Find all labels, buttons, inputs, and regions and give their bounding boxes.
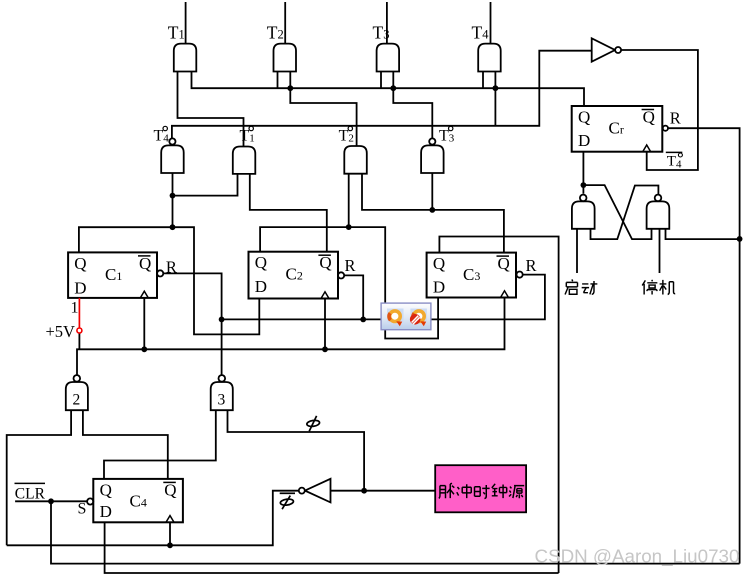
wire latch cross coupling right output to left gate input (591, 186, 659, 240)
junction C2 R on reset net (360, 317, 366, 323)
svg-text:T2: T2 (267, 23, 284, 43)
svg-text:C2: C2 (286, 264, 303, 283)
wire stop input leg (659, 229, 661, 273)
wire top inverter output to Cr clock (621, 50, 698, 170)
svg-text:Q: Q (255, 253, 267, 272)
junction T3 on bus (390, 85, 396, 91)
S bubble C4 (87, 498, 93, 504)
wire clock source to bottom inverter input (331, 490, 436, 492)
R bubble Cr (663, 126, 668, 131)
svg-text:C1: C1 (105, 265, 122, 284)
wire bus from T1 right leg to Cr Q pin (192, 72, 585, 107)
wire C2 clock down to clock line (324, 299, 326, 350)
wire T3 right leg through bus to T3-prime bubble (393, 72, 432, 139)
wire C3 Q up and over to right long rail down (439, 237, 558, 574)
wire gate3 left leg to C4 Q pin (104, 410, 216, 479)
AND gate T4 (478, 44, 501, 72)
svg-text:T4: T4 (472, 23, 490, 43)
svg-text:Q: Q (643, 108, 655, 127)
flip-flop Cr clock triangle (643, 145, 651, 152)
labels flip-flop C4 (78, 480, 177, 521)
wire T4 right leg through bus to T4-line (494, 72, 496, 126)
wire T4 line from T4-prime bubble to top inverter input (172, 51, 592, 139)
inverter gate T4-prime with input bubble (161, 145, 184, 173)
wire T2 right leg through bus to T2-prime gate top (290, 72, 356, 147)
labels flip-flop C3 (433, 254, 537, 297)
red wire from C1 D to +5V terminal (78, 298, 80, 328)
svg-text:R: R (166, 258, 177, 277)
junction T4-prime output on C1 Q line (170, 224, 176, 230)
wire bottom inverter output phibar to C4 clock and gate2 (7, 491, 299, 546)
svg-text:Q: Q (139, 254, 151, 273)
wire C1 Q up and over to C2 D (79, 227, 259, 334)
junction C2 clock on clock line (322, 346, 328, 352)
svg-text:T4: T4 (667, 154, 682, 171)
+5V terminal circle (77, 328, 82, 333)
wire T1-prime right leg to C2 Qbar pin (250, 174, 327, 252)
label CLR with overline (15, 483, 46, 502)
svg-text:C4: C4 (130, 492, 147, 511)
wire latch right gate right leg to right rail (666, 229, 740, 239)
wire CLR branch down and right to right rail (51, 501, 740, 563)
flip-flop Cr box (572, 106, 663, 152)
label T4-prime (154, 126, 170, 144)
junction T2-prime left leg on C2 Q line (346, 224, 352, 230)
wire T1 left leg to T1-prime gate top (178, 72, 244, 147)
flip-flop C3 box (427, 253, 516, 298)
NAND gate 3 (211, 382, 233, 410)
wire Cr D pin down to latch bubble (582, 152, 584, 194)
junction C4 clock on phibar line (167, 542, 173, 548)
svg-text:T1: T1 (168, 23, 185, 43)
wire C1 clock down to clock line (143, 298, 145, 349)
svg-text:Q: Q (100, 480, 112, 499)
wire T4-prime output down to C1 Q node (172, 173, 174, 227)
wire T4 left leg to bus (482, 72, 484, 89)
label T4bar-prime at Cr clock (666, 152, 683, 170)
junction T2 on bus (287, 85, 293, 91)
R bubble C2 (338, 272, 344, 278)
wire C2 R bubble to reset net (344, 275, 363, 319)
wire T3 input from top edge (386, 2, 388, 44)
wire clock line from +5V to C3 clock (77, 298, 505, 375)
flip-flop C3 clock triangle (501, 291, 509, 298)
svg-text:R: R (345, 256, 356, 275)
junction right rail with latch feedback (737, 236, 743, 242)
flip-flop C2 clock triangle (321, 292, 329, 299)
R bubble C3 (517, 272, 523, 278)
AND gate T2 (274, 44, 297, 72)
gate T1-prime (233, 147, 256, 174)
svg-text:Q: Q (164, 480, 176, 499)
wire T1 input from top edge (185, 2, 187, 44)
svg-text:Q: Q (74, 254, 86, 273)
icon artifact panel with two red swirl glyphs (381, 303, 431, 330)
NAND gate latch right (stop) (647, 201, 670, 228)
wire C2 Q up and over behind icon to C3 D (260, 227, 438, 338)
svg-text:D: D (433, 278, 445, 297)
junction Cr D with latch (581, 182, 587, 188)
label T3-prime (439, 126, 455, 144)
wire gate2 left leg to phibar line (7, 410, 71, 545)
svg-text:Q: Q (319, 253, 331, 272)
wire T2-prime right leg to C3 Qbar pin (362, 174, 504, 253)
wire Cr R bubble to right rail (668, 128, 740, 563)
flip-flop C4 clock triangle (166, 516, 174, 523)
wire gate3 right leg phi line to clock source line (228, 410, 365, 491)
svg-text:S: S (78, 500, 87, 517)
AND gate T1 (174, 44, 197, 72)
flip-flop C1 clock triangle (140, 291, 148, 298)
top inverter (makes T4 bar) (592, 38, 615, 61)
svg-text:C3: C3 (463, 265, 480, 284)
wire T3 left leg to bus (380, 72, 382, 89)
svg-text:R: R (670, 108, 681, 127)
svg-text:D: D (255, 277, 267, 296)
svg-text:1: 1 (71, 300, 79, 317)
junction T4 on bus (493, 85, 499, 91)
junction CLR branch (48, 498, 54, 504)
wire CLR label line to C4 S bubble (15, 500, 87, 502)
clock source text: mai chong shi zhong yuan (439, 483, 454, 498)
svg-text:Q: Q (433, 254, 445, 273)
NAND gate latch left (start) (572, 201, 595, 228)
svg-text:D: D (578, 131, 590, 150)
AND gate T3 (377, 44, 400, 72)
label T2-prime (339, 126, 354, 144)
label start (qi dong) (565, 279, 577, 294)
NAND gate 2 (66, 382, 88, 410)
wire T2-prime left leg to C2 Q node (348, 174, 350, 227)
svg-text:Q: Q (578, 108, 590, 127)
svg-text:Cr: Cr (609, 119, 624, 138)
wire T2 input from top edge (284, 2, 286, 44)
inverter gate T3-prime with input bubble (421, 145, 444, 173)
svg-text:CSDN @Aaron_Liu0730: CSDN @Aaron_Liu0730 (535, 546, 740, 568)
junction C1 clock on clock line (141, 346, 147, 352)
wire C4 clock down to phibar line (169, 522, 171, 545)
svg-text:R: R (526, 256, 537, 275)
svg-text:2: 2 (73, 392, 81, 409)
svg-text:D: D (74, 278, 86, 297)
junction C1 R reset net (219, 317, 225, 323)
svg-text:Q: Q (498, 254, 510, 273)
svg-text:+5V: +5V (46, 322, 76, 341)
wire reset net horizontal to C3 R riser (222, 275, 545, 320)
gate T2-prime (344, 146, 367, 174)
label phi on clock line (306, 416, 319, 431)
wire T3-prime output down to C3 Qbar line (431, 173, 433, 210)
R bubble C1 (157, 270, 163, 276)
wire start input leg (576, 229, 578, 273)
junction phi line on inverter input (361, 488, 367, 494)
wire +5V terminal to clock line (78, 333, 80, 349)
wire gate2 right leg to C4 Qbar pin (83, 410, 168, 479)
wire T1-prime left leg to T4-prime output node (173, 174, 238, 196)
label stop (ting ji) (642, 280, 657, 295)
clock source box (magenta) (435, 465, 526, 512)
wire T2 left leg to bus (277, 72, 279, 89)
svg-text:3: 3 (218, 392, 226, 409)
flip-flop C2 box (249, 252, 339, 299)
svg-text:CLR: CLR (15, 485, 46, 502)
wire T4 input from top edge (490, 2, 492, 44)
junction T3-prime output on C3 Qbar line (429, 207, 435, 213)
wire C4 D down and right to C3 Q rail (105, 522, 559, 573)
flip-flop C4 box (93, 479, 183, 522)
label phi bar at inverter output (280, 493, 295, 509)
labels flip-flop C1 (74, 254, 177, 298)
label T1-prime (240, 126, 255, 144)
junction T4-prime output with T1-prime left leg (170, 193, 176, 199)
flip-flop C1 box (68, 252, 157, 298)
labels flip-flop C2 (255, 253, 356, 296)
bottom inverter (makes phi bar) (305, 479, 331, 503)
wire C1 R bubble to reset net (163, 273, 221, 374)
labels flip-flop Cr (578, 108, 681, 151)
svg-text:D: D (100, 502, 112, 521)
wire latch cross coupling left output to right gate input (583, 185, 651, 239)
